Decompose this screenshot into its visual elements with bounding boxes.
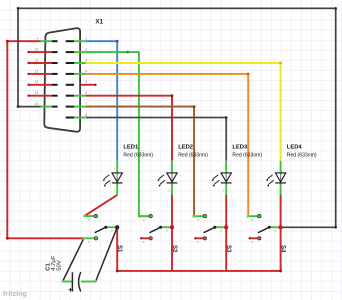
red wire bendpoint [171, 94, 174, 97]
wire: X1 pin 1 to LED1 anode (blue) [86, 41, 117, 161]
common leg [269, 226, 280, 228]
svg-text:S2: S2 [171, 245, 177, 253]
common leg [215, 226, 226, 228]
LED LED3 (Red 633nm) [212, 161, 232, 195]
svg-text:1: 1 [251, 240, 253, 244]
X1 pin 3 [66, 62, 74, 64]
top throw contact [203, 215, 206, 218]
wire: C1 left lead to S1 bottom throw node (black diagonal) [63, 238, 84, 281]
svg-text:S4: S4 [280, 245, 286, 253]
common leg [161, 226, 172, 228]
X1 pin 7 [66, 106, 74, 108]
LED LED2 (Red 633nm) [157, 161, 177, 195]
bus bendpoint left [116, 269, 119, 272]
X1 pin 9 [52, 40, 58, 42]
svg-text:50V: 50V [57, 260, 63, 271]
X1 pin 5 [66, 84, 74, 86]
svg-text:13: 13 [35, 80, 39, 84]
top throw contact [258, 215, 261, 218]
svg-text:LED1: LED1 [123, 144, 139, 150]
svg-text:11: 11 [35, 58, 39, 62]
svg-text:2: 2 [220, 229, 222, 233]
wire: X1 pin 3 to LED4 anode (yellow) [86, 63, 281, 161]
yellow wire bendpoint [279, 62, 282, 65]
X1 pin 14 [52, 95, 58, 97]
switch S1 (SPDT) [83, 215, 120, 245]
wire: X1 pin 5 stub (red, dangling) [74, 84, 96, 86]
svg-text:1: 1 [197, 240, 199, 244]
svg-text:14: 14 [35, 91, 39, 95]
svg-text:8: 8 [85, 113, 87, 117]
junction bendpoint (7.3,238.3) [6, 237, 9, 240]
top throw contact [149, 215, 152, 218]
svg-text:10: 10 [35, 48, 39, 52]
svg-text:2: 2 [275, 229, 277, 233]
svg-text:7: 7 [85, 102, 87, 106]
lever [149, 227, 160, 233]
svg-text:Red (633nm): Red (633nm) [123, 152, 153, 158]
bottom throw contact [258, 237, 261, 240]
lever [95, 227, 106, 233]
wire: X1 pin 9 to S1 bottom throw (red, left bus) [7, 41, 84, 238]
wire: S1 common down to bus [116, 227, 118, 271]
svg-text:Red (633nm): Red (633nm) [232, 152, 262, 158]
svg-text:3: 3 [88, 218, 90, 222]
junction node at switch common [224, 225, 228, 229]
junction bendpoint (7.3,41.2) [6, 40, 9, 43]
X1 pin 11 [52, 62, 58, 64]
svg-text:3: 3 [197, 218, 199, 222]
switch S2 (SPDT) [139, 215, 174, 245]
junction node at switch common [278, 225, 282, 229]
junction node at switch common [115, 225, 119, 229]
X1 pin 15 [52, 106, 58, 108]
wire: bottom throw stub (red, dangling) [250, 237, 258, 239]
wire: X1 pin 4 to S4 top throw (orange) [86, 74, 248, 216]
gray wire bendpoint (18.0,8.3) [17, 7, 20, 10]
top throw contact [94, 215, 97, 218]
svg-text:2: 2 [85, 48, 87, 52]
LED LED1 (Red 633nm) [103, 161, 123, 195]
X1 pin 6 [66, 95, 74, 97]
X1 pin 2 [66, 51, 74, 53]
wire: X1 pin 10 stub (red, dangling) [29, 51, 53, 53]
bottom throw contact [203, 237, 206, 240]
X1 pin 8 [66, 117, 74, 119]
common leg [106, 226, 117, 228]
X1 pin 1 [66, 40, 74, 42]
wire: X1 pin 8 to LED3 anode (gray) [86, 118, 226, 161]
svg-text:15: 15 [35, 102, 39, 106]
wire: X1 pin 11 stub (red, dangling) [29, 62, 53, 64]
svg-text:Red (633nm): Red (633nm) [178, 152, 208, 158]
svg-text:6: 6 [85, 91, 87, 95]
svg-text:fritzing: fritzing [3, 289, 27, 298]
orange wire bendpoint [247, 73, 250, 76]
wire: LED column x=280.6 cathode down to bus [280, 195, 282, 271]
wire: LED1 cathode to S1 top throw (red diagonal) [84, 195, 117, 216]
brown wire bendpoint [193, 105, 196, 108]
wire: X1 pin 13 stub (red, dangling) [29, 84, 53, 86]
svg-text:LED2: LED2 [178, 144, 193, 150]
junction node at switch common [170, 225, 174, 229]
switch S3 (SPDT) [192, 215, 228, 245]
svg-text:9: 9 [37, 37, 39, 41]
pivot [213, 226, 216, 229]
wire: X1 pin 7 to S3 top throw (brown) [86, 107, 194, 217]
lever [258, 227, 269, 233]
svg-text:Red (633nm): Red (633nm) [287, 152, 317, 158]
svg-text:3: 3 [143, 218, 145, 222]
X1 pin 10 [52, 51, 58, 53]
svg-text:2: 2 [111, 229, 113, 233]
svg-text:LED3: LED3 [232, 144, 248, 150]
svg-text:2: 2 [166, 229, 168, 233]
pivot [159, 226, 162, 229]
capacitor C1 4.7uF 50V [62, 272, 97, 291]
svg-text:3: 3 [251, 218, 253, 222]
svg-text:S3: S3 [225, 245, 231, 253]
bottom throw contact [149, 237, 152, 240]
wire: X1 pin 2 to S2 top throw (green) [86, 52, 150, 216]
switch S4 (SPDT) [247, 215, 283, 245]
X1 pin 13 [52, 84, 58, 86]
svg-text:S1: S1 [116, 245, 122, 253]
svg-text:1: 1 [143, 240, 145, 244]
wire: LED column x=226.2 cathode down to bus [225, 195, 227, 271]
svg-text:LED4: LED4 [287, 144, 303, 150]
wire: X1 pin 15 to S4 common (gray, around top and right) [18, 8, 336, 227]
blue wire bendpoint [116, 40, 119, 43]
wire: bottom throw stub (red, dangling) [195, 237, 203, 239]
gray wire bendpoint (335.7,227.3) [334, 226, 337, 229]
plus sign [69, 288, 73, 292]
svg-text:4: 4 [85, 69, 87, 73]
wire: X1 pin 6 to LED2 anode (red) [86, 96, 172, 161]
wire: bottom bus (red) [117, 270, 280, 272]
X1 pin 12 [52, 73, 58, 75]
pivot [268, 226, 271, 229]
svg-text:3: 3 [85, 58, 87, 62]
wire: X1 pin 14 stub (red, dangling) [29, 95, 53, 97]
pivot [104, 226, 107, 229]
wire: C1 right lead to S1 common (black diagonal) [96, 227, 118, 281]
gray wire bendpoint [225, 116, 228, 119]
wire: LED column x=172.0 cathode down to bus [171, 195, 173, 271]
svg-text:1: 1 [88, 240, 90, 244]
X1 pin 4 [66, 73, 74, 75]
svg-text:X1: X1 [95, 18, 103, 25]
gray wire bendpoint (335.7,8.3) [334, 7, 337, 10]
svg-text:5: 5 [85, 80, 87, 84]
gray wire bendpoint (18.0,106.6) [17, 105, 20, 108]
lever [204, 227, 215, 233]
bus bendpoint right [279, 269, 282, 272]
connector X1 (DB15) [44, 28, 80, 132]
green wire bendpoint (127.6,52.1) [126, 51, 129, 54]
svg-text:12: 12 [35, 69, 39, 73]
LED LED4 (Red 633nm) [266, 161, 286, 195]
wire: X1 pin 12 stub (red, dangling) [29, 73, 53, 75]
bottom throw contact [94, 237, 97, 240]
svg-text:1: 1 [85, 37, 87, 41]
wire: bottom throw stub (red, dangling) [141, 237, 149, 239]
